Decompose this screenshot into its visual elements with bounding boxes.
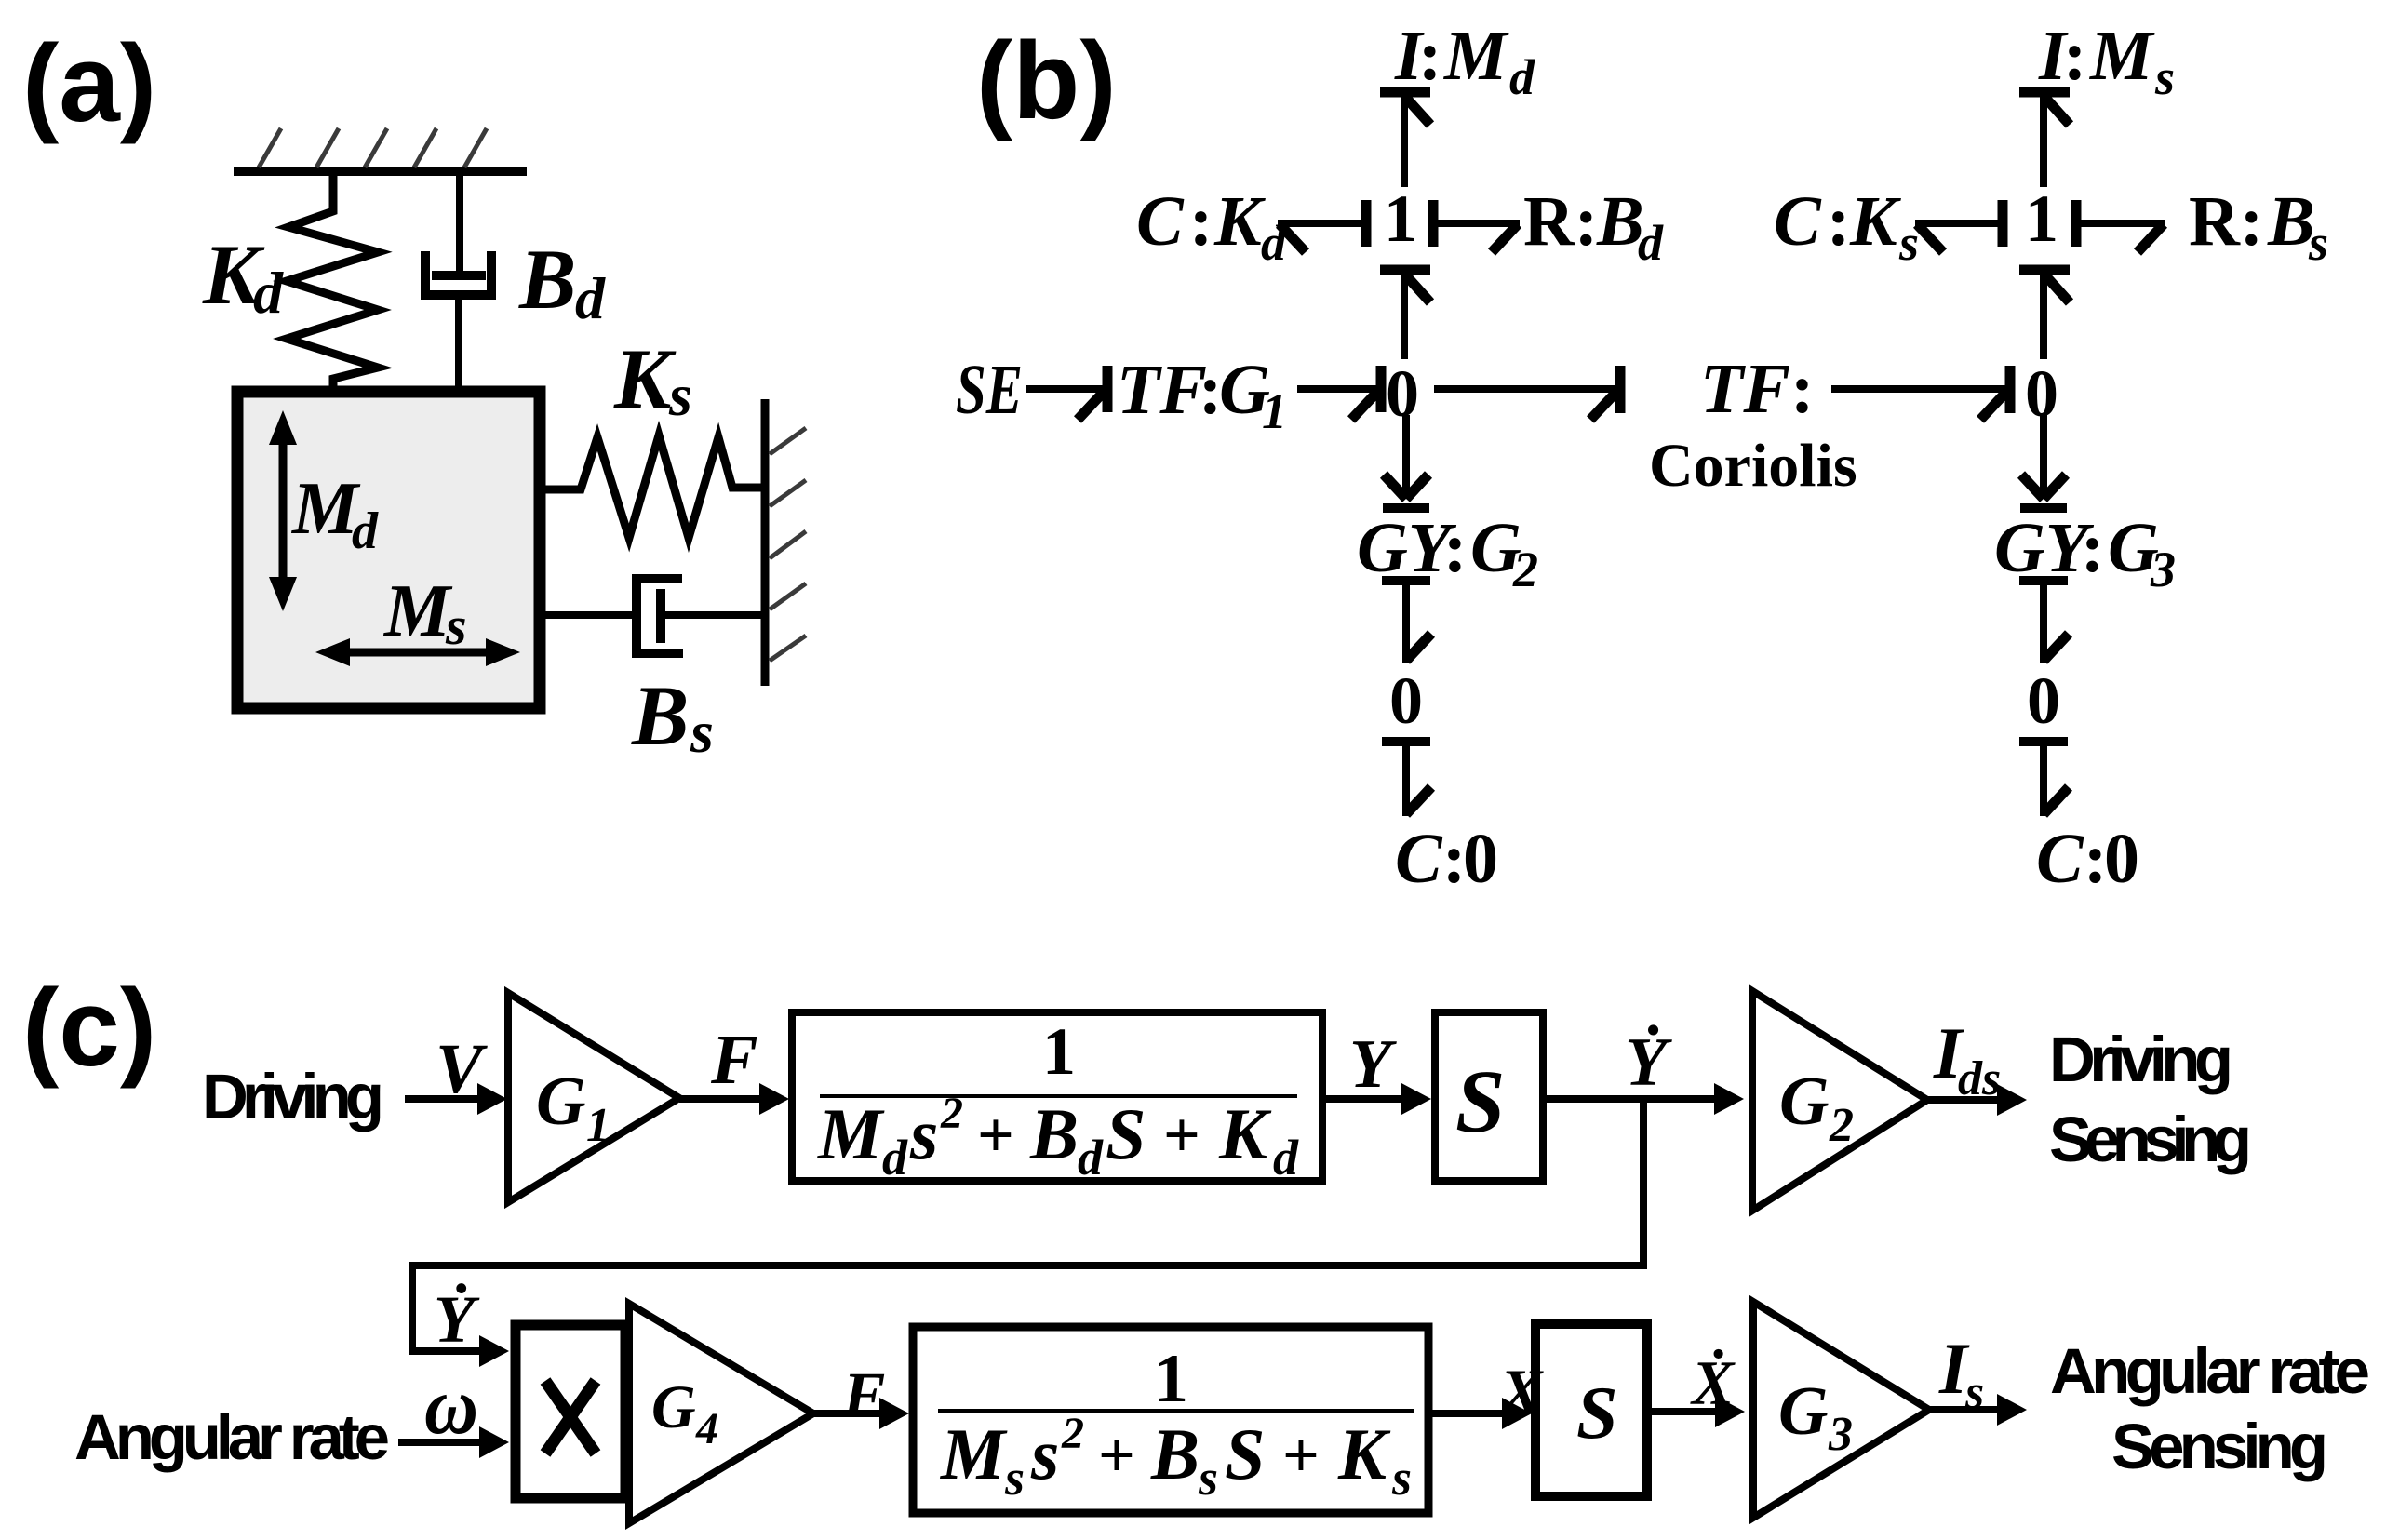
svg-text:0: 0 xyxy=(1389,663,1423,738)
bond TF:G1 to 0 xyxy=(1297,366,1381,420)
gain block G1 (triangle) xyxy=(508,993,679,1202)
svg-text:s: s xyxy=(1030,1413,1059,1494)
svg-text:M: M xyxy=(382,570,453,652)
spring Kd xyxy=(287,173,378,394)
svg-text:s: s xyxy=(690,699,714,765)
svg-text:Sensing: Sensing xyxy=(2049,1104,2252,1175)
arrow V into G1 xyxy=(405,1083,507,1115)
svg-text:2: 2 xyxy=(1829,1099,1854,1152)
svg-text:M: M xyxy=(939,1413,1008,1494)
multiplier box X xyxy=(516,1325,625,1498)
svg-text:Ẏ: Ẏ xyxy=(434,1282,480,1357)
svg-text:+: + xyxy=(977,1100,1014,1172)
svg-text:S: S xyxy=(1455,1051,1505,1151)
svg-text:Angular rate: Angular rate xyxy=(74,1401,390,1473)
svg-text:F: F xyxy=(710,1021,758,1099)
bond 0 to TF:Coriolis xyxy=(1434,366,1620,420)
bond GY:G2 to 0 xyxy=(1382,581,1431,663)
gain block G3 (triangle) xyxy=(1753,1302,1929,1518)
svg-text:Driving: Driving xyxy=(202,1061,384,1132)
spring Ks xyxy=(545,435,763,538)
svg-text:+: + xyxy=(1163,1100,1200,1172)
svg-text:S: S xyxy=(1106,1093,1146,1174)
svg-text:R:Bs: R:Bs xyxy=(2189,182,2328,271)
svg-text:C:0: C:0 xyxy=(2036,820,2139,898)
svg-text:2: 2 xyxy=(1061,1409,1084,1458)
svg-text:s: s xyxy=(668,362,692,428)
bond TF:Coriolis to 0 (right) xyxy=(1831,366,2010,420)
svg-text:TF:: TF: xyxy=(1700,350,1814,428)
gain block G4 (triangle) xyxy=(629,1304,813,1523)
svg-text:C:Ks: C:Ks xyxy=(1774,182,1919,271)
svg-text:s: s xyxy=(1004,1450,1025,1506)
bond 1 to R:Bd xyxy=(1433,200,1520,252)
svg-text:M: M xyxy=(816,1093,885,1174)
svg-text:Coriolis: Coriolis xyxy=(1649,432,1857,500)
svg-text:ds: ds xyxy=(1958,1052,2001,1105)
svg-text:C:0: C:0 xyxy=(1395,820,1498,898)
right wall xyxy=(761,399,770,686)
svg-text:+: + xyxy=(1098,1420,1135,1492)
svg-text:Y: Y xyxy=(1349,1026,1397,1103)
arrow X into S box 2 xyxy=(1428,1398,1532,1429)
integrator box S (bottom) xyxy=(1535,1324,1647,1496)
svg-text:B: B xyxy=(631,668,689,763)
svg-text:s: s xyxy=(1198,1450,1218,1506)
svg-text:1: 1 xyxy=(1042,1014,1076,1089)
svg-text:3: 3 xyxy=(1828,1408,1853,1461)
svg-text:TF:G1: TF:G1 xyxy=(1117,351,1287,439)
svg-text:Ẏ: Ẏ xyxy=(1625,1024,1672,1101)
mass block Md/Ms xyxy=(237,392,540,708)
output Ids arrow xyxy=(1927,1084,2027,1116)
arrow Xdot into G3 xyxy=(1652,1396,1745,1427)
svg-text:1: 1 xyxy=(1384,181,1417,256)
integrator box S (top) xyxy=(1435,1012,1543,1181)
arrow F into transfer box 2 xyxy=(813,1398,909,1429)
bond 1 to I:Md xyxy=(1380,89,1430,187)
transfer function box 1/(Mss2+BsS+Ks) xyxy=(913,1327,1428,1513)
Ms motion double-arrow xyxy=(315,638,520,666)
svg-text:d: d xyxy=(882,1130,908,1185)
svg-text:0: 0 xyxy=(2027,663,2060,738)
bond 0 to 1 (right) xyxy=(2019,268,2070,359)
svg-text:d: d xyxy=(1078,1130,1104,1185)
svg-text:B: B xyxy=(1029,1093,1079,1174)
arrow F into transfer box xyxy=(679,1083,789,1115)
bond 0 to C:0 (right) xyxy=(2019,742,2069,816)
bond 1 to C:Ks xyxy=(1915,200,2003,252)
svg-text:M: M xyxy=(290,468,361,550)
svg-text:ω: ω xyxy=(424,1361,478,1452)
bond 1 to I:Ms xyxy=(2019,89,2070,187)
svg-text:G: G xyxy=(651,1373,696,1441)
bond 0 to GY:G2 xyxy=(1383,415,1429,508)
svg-text:1: 1 xyxy=(2025,181,2058,256)
bond 1 to R:Bs xyxy=(2076,200,2165,252)
Md motion double-arrow xyxy=(269,410,297,611)
wall hatch marks xyxy=(770,428,806,661)
svg-text:Driving: Driving xyxy=(2049,1024,2233,1095)
svg-text:G: G xyxy=(536,1064,585,1140)
svg-text:S: S xyxy=(1225,1413,1265,1494)
svg-text:K: K xyxy=(1218,1093,1272,1174)
arrow omega into X xyxy=(398,1426,509,1458)
svg-text:Angular rate: Angular rate xyxy=(2050,1335,2370,1407)
damper Bd xyxy=(425,173,491,394)
svg-text:d: d xyxy=(352,502,379,560)
ceiling ground line xyxy=(234,167,527,176)
bond GY:G3 to 0 xyxy=(2019,581,2069,663)
svg-text:4: 4 xyxy=(695,1404,718,1453)
svg-text:G: G xyxy=(1779,1064,1829,1140)
bond 1 to C:Kd xyxy=(1278,200,1366,252)
arrow Y into S box xyxy=(1325,1083,1431,1115)
svg-text:+: + xyxy=(1282,1420,1320,1492)
svg-text:Sensing: Sensing xyxy=(2111,1411,2328,1482)
svg-text:R:Bd: R:Bd xyxy=(1523,182,1664,271)
svg-text:B: B xyxy=(1150,1413,1200,1494)
svg-text:s: s xyxy=(1964,1366,1984,1419)
gain block G2 (triangle) xyxy=(1752,991,1927,1211)
svg-text:s: s xyxy=(909,1093,938,1174)
svg-text:d: d xyxy=(253,260,284,326)
svg-text:s: s xyxy=(445,596,467,656)
svg-text:(a): (a) xyxy=(22,22,156,145)
svg-text:2: 2 xyxy=(940,1089,963,1138)
svg-text:1: 1 xyxy=(1154,1341,1188,1417)
svg-text:s: s xyxy=(1391,1450,1412,1506)
bond 0 to 1 (left) xyxy=(1380,268,1430,359)
wire S to G2 with tee junction xyxy=(1547,1083,1744,1115)
svg-text:d: d xyxy=(575,265,606,331)
ceiling hatch marks xyxy=(259,128,487,167)
svg-text:S: S xyxy=(1576,1373,1618,1454)
bond 0 to C:0 (left) xyxy=(1382,742,1431,816)
transfer function box 1/(Mds2+BdS+Kd) xyxy=(792,1012,1322,1181)
svg-text:B: B xyxy=(518,232,576,327)
svg-text:d: d xyxy=(1273,1130,1299,1185)
svg-text:1: 1 xyxy=(586,1099,610,1152)
bond SE to TF:G1 xyxy=(1026,366,1107,420)
damper Bs xyxy=(545,579,766,653)
svg-text:K: K xyxy=(1337,1413,1391,1494)
feedback wire from Ydot xyxy=(412,1099,1643,1351)
output Is arrow xyxy=(1929,1394,2027,1426)
svg-text:(b): (b) xyxy=(976,20,1117,142)
svg-text:F: F xyxy=(842,1359,885,1429)
bond 0 to GY:G3 xyxy=(2020,415,2067,508)
svg-text:SE: SE xyxy=(956,351,1023,429)
svg-text:G: G xyxy=(1778,1373,1828,1450)
svg-text:(c): (c) xyxy=(22,967,156,1090)
svg-text:K: K xyxy=(613,331,677,426)
